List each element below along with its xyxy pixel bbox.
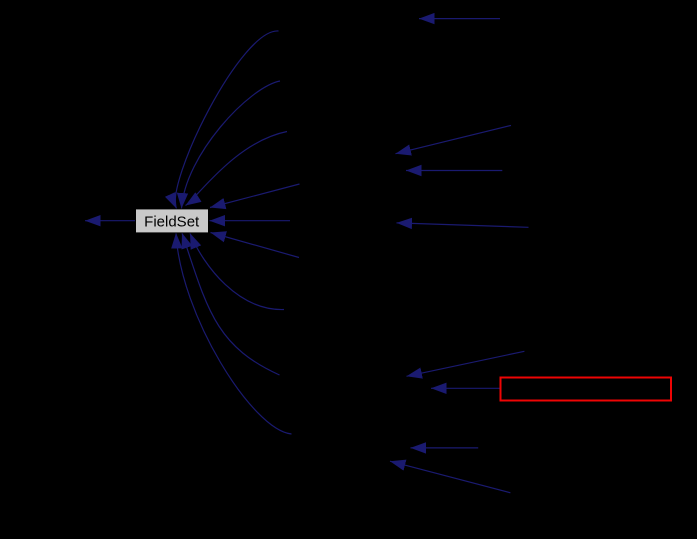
wire edge B1 into FieldSet bottom [190,233,284,309]
wire edge R7 horizontal [411,447,479,449]
wire edge R4 shallow diagonal [397,223,529,227]
node FieldSet [136,209,209,233]
wire edge R5 diagonal [407,351,525,376]
wire edge R1 horizontal top [419,18,500,20]
wire edge E_B into FieldSet right [210,220,291,222]
wire edge B3 into FieldSet bottom [176,233,292,434]
wire edge R3 horizontal [406,170,502,172]
wire edge E_A into FieldSet right top corner [210,184,300,208]
wire edge T3 into FieldSet top [186,132,288,206]
wire edge R6 from red node [431,387,500,389]
wire edge T1 into FieldSet top [175,31,278,209]
svg-text:FieldSet: FieldSet [144,214,200,231]
wire edge FieldSet to left node [85,220,136,222]
wire edge R8 diagonal [390,461,510,493]
node highlighted red box [501,378,672,401]
wire edge B2 into FieldSet bottom [182,233,280,375]
wire edge T2 into FieldSet top [182,81,281,209]
wire edge R2 diagonal [396,125,512,153]
wire edge E_C into FieldSet bottom right corner [211,233,300,258]
